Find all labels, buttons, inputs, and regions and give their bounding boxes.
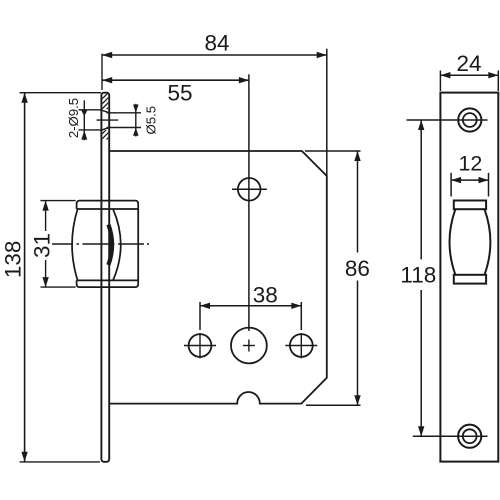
dim 12	[451, 173, 488, 197]
118 bottom extension line	[413, 435, 488, 437]
svg-text:2-Ø9.5: 2-Ø9.5	[66, 98, 81, 138]
faceplate hatching	[96, 80, 116, 155]
latch bolt side view	[72, 201, 138, 288]
bottom screw hole	[458, 425, 481, 448]
dim 38	[200, 302, 301, 330]
right small hole	[290, 334, 313, 357]
dim 55	[102, 77, 249, 83]
svg-text:55: 55	[167, 80, 192, 105]
screw hole bore lines (Ø5.5 extension)	[107, 113, 142, 128]
svg-text:Ø5.5: Ø5.5	[144, 106, 159, 135]
countersunk screw hole funnel	[101, 110, 109, 130]
svg-text:84: 84	[204, 31, 229, 56]
latch roller thick crescent	[108, 225, 112, 266]
svg-text:31: 31	[30, 233, 55, 258]
dim 138	[20, 93, 102, 462]
top screw hole	[458, 108, 481, 131]
dim 31	[41, 201, 76, 288]
118 top extension line	[407, 119, 488, 121]
cylinder big circle	[231, 328, 267, 364]
dim Ø5.5	[133, 104, 139, 137]
latch centerline	[52, 243, 149, 245]
svg-text:138: 138	[0, 241, 25, 279]
latch front view	[450, 201, 491, 284]
dim 86	[305, 151, 361, 405]
dim 24	[440, 71, 498, 92]
left small hole	[189, 334, 212, 357]
dim 84	[102, 52, 327, 58]
dim 118	[418, 120, 424, 436]
hole centerline	[97, 119, 119, 121]
svg-text:12: 12	[458, 152, 482, 176]
svg-text:24: 24	[456, 51, 481, 76]
dim 84 extension line at plate	[101, 54, 103, 90]
lock case outline	[109, 151, 327, 404]
spindle hole circle	[238, 178, 261, 201]
main vertical centerline	[248, 74, 250, 331]
svg-text:118: 118	[400, 262, 436, 287]
dim 84 extension line at case right	[326, 49, 328, 176]
faceplate side view (left)	[101, 93, 109, 462]
svg-text:38: 38	[253, 282, 278, 307]
faceplate front view (right)	[440, 93, 498, 462]
dim 2-Ø9.5	[79, 100, 102, 140]
svg-text:86: 86	[345, 256, 370, 281]
